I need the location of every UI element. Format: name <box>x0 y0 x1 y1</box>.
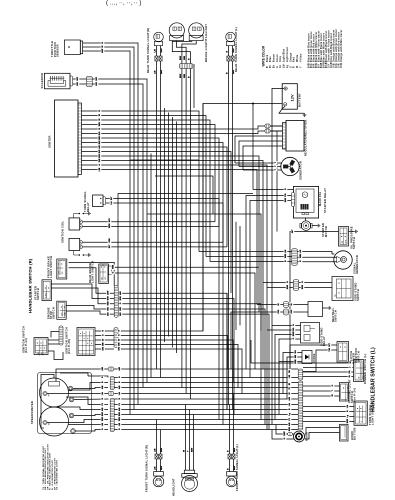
svg-text:O/W: O/W <box>109 238 111 242</box>
label neutral switch <box>331 307 338 322</box>
wire TPS W <box>83 47 134 410</box>
svg-text:B/W: B/W <box>161 448 163 452</box>
svg-text:W: W <box>350 361 352 363</box>
wire front turn L up2 <box>233 394 235 455</box>
ground spark plug 2 <box>87 253 90 257</box>
wire mesh v6 <box>155 176 213 214</box>
label side-stand switch <box>354 282 361 301</box>
svg-text:W/B: W/B <box>184 73 186 78</box>
wire main R long <box>118 192 253 194</box>
connector speedo bar 1 <box>110 376 114 390</box>
label starter motor <box>321 223 328 237</box>
wire dimmer 4 <box>303 376 354 378</box>
coil2 labels <box>108 238 112 249</box>
wire front turn L lead2 <box>233 459 235 472</box>
svg-text:Lbl: Lbl <box>119 392 121 396</box>
tail trunk labels <box>180 73 191 78</box>
svg-text:Lg: Lg <box>287 64 289 68</box>
wire cluster ind2 <box>74 398 109 401</box>
wire coil1 B/O <box>83 221 215 223</box>
svg-text:B/W: B/W <box>234 466 236 470</box>
svg-text:GENERATOR: GENERATOR <box>355 255 359 274</box>
svg-text:O/B: O/B <box>103 342 105 346</box>
speedometer gauge <box>40 378 69 407</box>
wire ign sw row2 a <box>48 343 59 345</box>
rear turn L wire labels <box>227 48 236 74</box>
svg-text:FRONT TURN SIGNAL LIGHT(R): FRONT TURN SIGNAL LIGHT(R) <box>145 445 149 492</box>
svg-text:B/W: B/W <box>284 431 286 435</box>
wire mesh h2 <box>130 159 199 161</box>
svg-text:W/B: W/B <box>99 122 101 127</box>
coil1 labels <box>108 218 112 229</box>
svg-text:W/B: W/B <box>119 417 121 422</box>
side-stand switch <box>332 277 353 301</box>
svg-text:White: White <box>296 54 299 62</box>
connector handlebar R inline bar <box>114 286 118 318</box>
starter relay labels <box>284 188 288 203</box>
svg-text:L/B: L/B <box>289 374 291 378</box>
wire bus y377.5 a <box>114 377 298 379</box>
wire siggen 3 cont <box>210 261 292 263</box>
wire starter relay Y/G <box>246 196 291 370</box>
svg-text:L/B: L/B <box>102 422 104 426</box>
front brake light switch <box>57 259 67 279</box>
wire front brake 1 <box>69 262 115 286</box>
label rear brake light switch <box>88 261 95 283</box>
wire tsw 4 <box>303 421 355 423</box>
wire cluster sp2 <box>69 383 109 391</box>
signal generator labels <box>284 249 303 263</box>
svg-text:B/O: B/O <box>120 307 122 311</box>
svg-text:SPEEDOMETER: SPEEDOMETER <box>30 401 34 424</box>
label signal generator <box>353 255 360 274</box>
ground oil pressure <box>354 230 357 234</box>
wire ignition O b <box>118 336 228 370</box>
label horn <box>305 432 309 441</box>
svg-text:B/Y: B/Y <box>111 196 113 200</box>
generator wire labels <box>274 161 278 171</box>
wire starter relay O/W <box>253 189 293 191</box>
wire neutral Bl cont <box>257 304 284 306</box>
svg-text:B/O: B/O <box>99 149 101 153</box>
wire mesh v11 <box>276 131 278 232</box>
svg-text:WIRE COLOR: WIRE COLOR <box>261 45 265 66</box>
label regulator/rectifier <box>304 120 308 156</box>
svg-text:Light Blue: Light Blue <box>283 48 286 62</box>
wire side-stand B/W <box>299 287 332 289</box>
signal generator <box>334 251 352 269</box>
wire mesh h3 <box>193 64 195 108</box>
tachometer light TA <box>43 420 51 425</box>
svg-text:BATTERY: BATTERY <box>298 93 302 107</box>
turn signal relay <box>93 195 106 207</box>
wire headlight W <box>185 405 187 471</box>
handlebar L row labels <box>288 369 292 432</box>
wire generator Y2 <box>239 166 281 168</box>
svg-text:O/G: O/G <box>278 309 280 313</box>
wire generator Y1 <box>235 162 281 164</box>
label igniter <box>48 135 52 148</box>
wire cluster ta2 <box>54 407 108 410</box>
ground starter motor <box>317 224 320 228</box>
svg-text:B/W: B/W <box>180 74 182 78</box>
wire rear brake O <box>112 273 255 369</box>
diode labels <box>294 350 298 365</box>
ignition row labels <box>101 329 121 351</box>
wire bus y399 a <box>114 398 298 400</box>
throttle position sensor <box>64 40 82 55</box>
svg-text:W: W <box>184 450 186 452</box>
terminal front turn L 2 <box>232 454 235 459</box>
svg-text:SENSOR: SENSOR <box>55 44 59 57</box>
svg-text:B/W: B/W <box>161 48 163 52</box>
label main fuse <box>318 191 322 206</box>
svg-text:A/B: A/B <box>101 385 104 389</box>
svg-text:B/W: B/W <box>161 466 163 470</box>
svg-text:Gr: Gr <box>348 375 351 378</box>
wire ignition O a <box>95 335 114 337</box>
svg-text:Blue: Blue <box>270 56 272 62</box>
generator <box>281 157 299 175</box>
label ignition switch P-28 <box>65 327 72 354</box>
wire passing 1 <box>303 385 340 387</box>
indicator light N <box>69 413 74 418</box>
wire bus 371.5 <box>303 371 316 373</box>
svg-text:O/W: O/W <box>341 62 343 68</box>
connector solenoid barrel <box>86 76 92 87</box>
wire dimmer 2 <box>303 367 354 369</box>
wire tsw 3 <box>303 416 355 418</box>
rear brake labels <box>111 264 115 274</box>
label starter switch <box>34 286 41 300</box>
terminal front turn R 2 <box>159 454 162 459</box>
wire front brake 2 <box>69 268 115 294</box>
wire horn button 2 <box>305 433 340 440</box>
wire bus y409.5 a <box>114 409 298 411</box>
svg-text:B/O: B/O <box>77 77 79 81</box>
igniter U1 <box>55 100 82 177</box>
svg-text:G: G <box>277 66 279 68</box>
brake/tail bulb 1 <box>169 23 184 41</box>
wire tail2 a <box>191 40 193 43</box>
wire bus y419.5 a <box>114 419 298 421</box>
wire mesh v1 <box>150 154 152 378</box>
wire tail1 b <box>176 41 186 64</box>
neutral switch <box>308 302 323 317</box>
wire front turn L up1 <box>229 405 231 455</box>
svg-text:LIGHT SWITCH: LIGHT SWITCH <box>370 403 374 425</box>
spark plug 2 <box>74 251 88 256</box>
label solenoid <box>40 73 44 89</box>
svg-text:B/G: B/G <box>99 154 101 158</box>
wire solenoid B/O cont <box>92 79 147 383</box>
wire igniter B <box>82 111 200 252</box>
svg-text:A/B: A/B <box>118 407 121 411</box>
wire ts relay B/Y <box>106 199 219 420</box>
wire igniter A <box>82 165 268 288</box>
connector horn barrel <box>288 432 293 436</box>
front turn L labels <box>228 448 237 470</box>
svg-text:L/B: L/B <box>300 249 302 253</box>
wire oil pressure G/Y <box>290 232 339 370</box>
horn <box>294 431 305 442</box>
connector neutral barrel 2 <box>284 309 289 315</box>
wire tsw 1 <box>303 406 355 408</box>
wire mesh h1 <box>147 214 261 331</box>
tachometer gauge <box>40 407 69 436</box>
wire tail2 c <box>172 40 192 42</box>
svg-text:O: O <box>290 66 292 68</box>
indicator light TS <box>68 386 73 391</box>
wire bus y414.5 a <box>114 414 298 416</box>
wire ignition O/G a <box>95 348 114 350</box>
label diode <box>312 353 316 363</box>
wire battery negative <box>279 106 305 113</box>
wire bus y404.5 a <box>114 404 298 406</box>
svg-text:A/B: A/B <box>98 145 101 149</box>
wire neutral O/G <box>289 311 309 313</box>
svg-text:W: W <box>289 393 291 395</box>
wire tail B/W down <box>181 69 183 388</box>
wire ign sw row1 a <box>48 339 59 341</box>
wire bus y424.5 a <box>114 424 298 426</box>
svg-text:OFF: OFF <box>38 352 40 355</box>
wire starter sw 2 <box>51 288 114 304</box>
wire headlight B/W <box>193 415 195 471</box>
svg-text:A/G: A/G <box>288 397 291 401</box>
svg-text:O/B: O/B <box>99 158 101 162</box>
wire bus y387.5 a <box>114 387 298 389</box>
wire handlebar R B/S <box>118 314 269 429</box>
TPS wire labels <box>101 42 105 54</box>
svg-text:RELAY: RELAY <box>86 202 90 212</box>
diode <box>302 351 312 364</box>
svg-text:B/W: B/W <box>108 296 110 300</box>
side-stand labels <box>286 281 305 290</box>
wire passing 3 <box>303 395 340 397</box>
wire coil2 O/W <box>83 241 223 243</box>
wire starter sw 1 <box>51 284 114 299</box>
wire battery feed down <box>271 104 273 326</box>
svg-text:B/W: B/W <box>234 448 236 452</box>
rear brake light switch <box>99 264 112 284</box>
connector brake/tail multi-pin <box>179 64 193 69</box>
label clutch lever position switch <box>349 348 361 363</box>
wire igniter W/B <box>82 125 216 222</box>
label passing light switch <box>348 379 357 403</box>
svg-text:W: W <box>99 114 101 116</box>
ignition switch (For P-24) <box>34 338 48 356</box>
wire rear turn L B <box>227 46 229 56</box>
wire ssrelay 4 <box>279 339 301 415</box>
wire starter motor gnd <box>312 225 316 227</box>
svg-text:(For P-24): (For P-24) <box>24 338 28 353</box>
wire battery main R <box>272 103 282 105</box>
svg-text:SWITCH: SWITCH <box>352 237 356 249</box>
svg-text:BUTTON: BUTTON <box>352 427 356 440</box>
wire dimmer 3 <box>303 371 354 373</box>
wire regrect Y3 <box>243 146 283 170</box>
svg-text:B/O: B/O <box>96 77 98 81</box>
wire relay to starter motor <box>305 218 307 221</box>
svg-text:B/W: B/W <box>102 49 104 53</box>
wire mesh h4 <box>226 293 228 410</box>
svg-text:Gray: Gray <box>280 55 282 62</box>
wire engine stop 2 <box>66 311 114 314</box>
connector handlebar L oval <box>298 369 303 380</box>
wire siggen 2 <box>297 256 336 258</box>
svg-text:B/W: B/W <box>289 427 291 431</box>
label headlight <box>172 478 176 496</box>
svg-text:Lbl: Lbl <box>347 405 349 409</box>
wire mesh v9 <box>235 222 237 330</box>
svg-text:SWITCH: SWITCH <box>356 289 360 301</box>
svg-text:W/B: W/B <box>102 417 104 422</box>
wire rear turn R B/W <box>160 46 162 56</box>
wire igniter B/G <box>82 156 260 267</box>
wire battery positive <box>203 89 284 332</box>
svg-text:B/S: B/S <box>96 82 98 86</box>
wire bus y429.5 a <box>114 429 298 431</box>
svg-text:B/S: B/S <box>108 312 110 316</box>
wire diode 3 <box>279 362 302 405</box>
svg-text:W/B: W/B <box>113 264 115 269</box>
wire regrect Y2 <box>239 141 283 167</box>
terminal rear turn R lead1 <box>155 56 158 61</box>
ts relay labels <box>110 196 114 206</box>
horn labels <box>283 431 287 440</box>
svg-text:B/B: B/B <box>99 136 101 140</box>
svg-text:12V: 12V <box>290 94 295 101</box>
indicator legend <box>42 443 59 490</box>
label ignition coil <box>60 221 64 243</box>
wire front turn R up1 <box>156 420 158 455</box>
indicator light OP <box>71 429 76 434</box>
handlebar R row labels <box>106 291 122 317</box>
wire mesh v10 <box>239 226 241 326</box>
svg-text:LIGHT SWITCH: LIGHT SWITCH <box>90 261 94 283</box>
svg-text:B/O: B/O <box>99 131 101 135</box>
wire coil2 B/Y2 <box>83 246 227 248</box>
svg-text:B/W: B/W <box>285 198 287 202</box>
battery 12V <box>282 84 297 110</box>
wire cluster ta3 <box>69 424 109 426</box>
wire tail W/B down <box>185 69 187 394</box>
svg-text:W/B: W/B <box>300 254 302 259</box>
ignition coil 1 <box>69 218 83 230</box>
solenoid wire labels <box>76 76 99 86</box>
indicator light HB <box>69 397 74 402</box>
svg-text:B/W: B/W <box>293 332 295 336</box>
wire horn button 1 <box>305 428 340 435</box>
svg-text:Lbl: Lbl <box>289 403 291 407</box>
svg-text:O/G: O/G <box>119 346 121 350</box>
speedo bus labels <box>101 366 122 431</box>
wire rear turn L B/W down <box>232 61 234 410</box>
label starter relay <box>323 188 327 213</box>
wire cluster top <box>56 369 108 382</box>
wire front turn R up2 <box>160 430 162 455</box>
terminal rear turn R lead2 <box>159 56 162 61</box>
svg-text:W/Bl: W/Bl <box>109 223 111 228</box>
wire siggen 3 <box>297 261 336 263</box>
wire handlebar R O <box>118 304 261 420</box>
svg-text:Gr: Gr <box>102 338 105 341</box>
svg-text:MOTOR: MOTOR <box>324 226 328 237</box>
svg-text:HEADLIGHT: HEADLIGHT <box>172 478 176 496</box>
wire starter relay B/W <box>250 201 291 378</box>
wire rear turn R L/B <box>155 46 157 56</box>
svg-text:O/B: O/B <box>119 342 121 346</box>
wire main R drop <box>117 193 119 286</box>
svg-text:DIODE: DIODE <box>312 353 316 363</box>
wire tail2 b <box>182 41 196 64</box>
terminal rear turn L lead2 <box>231 56 234 61</box>
svg-text:Y/G: Y/G <box>329 348 331 352</box>
label throttle position sensor <box>50 41 59 57</box>
wire cluster feed3 <box>60 373 88 376</box>
turn signal light switch <box>354 401 367 425</box>
wire tail B down <box>189 69 191 400</box>
svg-text:L/N: L/N <box>99 167 101 171</box>
wire rear turn L B/W <box>232 46 234 56</box>
label turn signal light switch <box>368 403 375 425</box>
wire generator Y3 <box>243 169 281 171</box>
oil pressure wire label <box>291 229 295 234</box>
rear turn signal light L <box>226 32 236 45</box>
wire igniter L/N <box>82 170 258 305</box>
svg-text:IGNITION COIL: IGNITION COIL <box>60 221 64 243</box>
svg-text:W/B: W/B <box>108 301 110 306</box>
svg-text:B/W: B/W <box>302 285 304 289</box>
svg-text:B/O: B/O <box>109 218 111 222</box>
wire mesh v8 <box>262 283 264 370</box>
svg-text:W/B: W/B <box>184 55 186 60</box>
wire igniter O/B <box>82 161 264 283</box>
tsw labels <box>346 404 350 424</box>
wire bus y382.5 a <box>114 382 298 384</box>
rear turn R wire labels <box>155 48 164 74</box>
svg-text:SWITCH: SWITCH <box>36 288 40 300</box>
svg-text:HANDLEBAR SWITCH (R): HANDLEBAR SWITCH (R) <box>28 258 33 313</box>
headlight labels <box>184 448 194 452</box>
wire bus y369 a <box>114 368 298 370</box>
label side-stand relay <box>319 327 326 346</box>
wire horn lead 1 <box>276 425 294 435</box>
svg-text:L/B: L/B <box>155 448 157 452</box>
wire TPS B/W <box>83 51 130 415</box>
svg-text:B/N: B/N <box>99 140 101 144</box>
label generator <box>299 161 303 180</box>
clutch labels <box>328 342 332 352</box>
ground battery <box>303 113 307 116</box>
wire engine stop 1 <box>66 306 114 310</box>
wire solenoid B/O <box>73 78 87 80</box>
svg-text:O/W: O/W <box>108 291 110 295</box>
svg-text:Bl/B: Bl/B <box>295 359 297 364</box>
wire R to starter relay <box>252 104 254 190</box>
wire rear turn L B down <box>227 61 229 405</box>
svg-text:Lbl: Lbl <box>102 392 104 396</box>
wire igniter B <box>82 126 283 129</box>
svg-text:R: R <box>294 66 296 68</box>
wire ignition O/G b <box>118 349 242 394</box>
svg-text:SWITCH: SWITCH <box>333 310 337 322</box>
label front turn signal light L <box>235 444 239 491</box>
terminal rear turn L lead1 <box>227 56 230 61</box>
svg-text:( …, ··, ··, ·· ): ( …, ··, ··, ·· ) <box>106 1 141 7</box>
label front brake light switch <box>46 256 53 278</box>
